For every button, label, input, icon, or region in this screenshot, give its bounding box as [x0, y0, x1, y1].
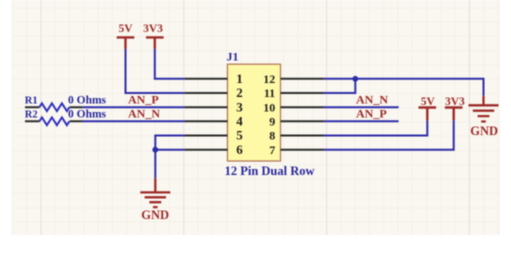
svg-text:7: 7: [269, 143, 275, 157]
wire pin8 to 5V right: [324, 120, 428, 135]
wire R1 to pin3: [82, 106, 184, 108]
svg-text:10: 10: [263, 100, 275, 114]
J1 pin 6: [184, 149, 227, 151]
J1 pin 5: [184, 135, 227, 137]
svg-text:AN_P: AN_P: [356, 107, 387, 121]
svg-text:5: 5: [236, 128, 243, 143]
J1 pin 7: [281, 149, 324, 151]
resistor R2 leads: [25, 120, 82, 122]
svg-text:AN_P: AN_P: [128, 93, 159, 107]
J1 pin 12: [281, 78, 324, 80]
svg-text:AN_N: AN_N: [128, 107, 160, 121]
svg-text:5V: 5V: [118, 23, 133, 35]
svg-text:3V3: 3V3: [143, 23, 163, 35]
wire pin7 to 3V3 right: [324, 120, 454, 150]
wire pin9 AN_P: [324, 120, 399, 122]
wire pin5 to GND drop: [155, 136, 184, 179]
wire 5V top to pin2: [126, 49, 185, 93]
svg-text:R1: R1: [25, 96, 38, 107]
resistor R1 body: [39, 103, 69, 111]
svg-text:0 Ohms: 0 Ohms: [68, 95, 107, 107]
J1 pin 3: [184, 106, 227, 108]
junction pin5/6: [152, 147, 158, 153]
wire 3V3 top to pin1: [155, 49, 185, 79]
svg-text:11: 11: [264, 86, 275, 100]
svg-text:12: 12: [263, 72, 275, 86]
J1 pin 2: [184, 92, 227, 94]
resistor R2 body: [39, 117, 69, 125]
svg-text:3: 3: [236, 99, 243, 114]
svg-text:9: 9: [269, 115, 275, 129]
junction pin11/12: [352, 76, 358, 82]
power symbol 3V3: [445, 108, 463, 121]
svg-text:2: 2: [236, 85, 243, 100]
J1 pin 1: [184, 78, 227, 80]
svg-text:GND: GND: [470, 124, 498, 138]
svg-text:5V: 5V: [421, 96, 436, 108]
svg-text:6: 6: [236, 142, 243, 157]
svg-text:1: 1: [236, 71, 243, 86]
power symbol 3V3: [146, 37, 164, 49]
wire R2 to pin4: [82, 120, 184, 122]
svg-text:R2: R2: [25, 110, 38, 121]
J1 pin 8: [281, 135, 324, 137]
wire pin11 up to pin12 net: [324, 79, 356, 93]
J1 pin 9: [281, 120, 324, 122]
svg-text:8: 8: [269, 129, 275, 143]
power symbol 5V: [117, 37, 135, 49]
grid major: [41, 0, 469, 235]
connector J1 body: [228, 64, 281, 161]
ground GND (right, pins 11/12): [482, 96, 484, 106]
J1 pin 11: [281, 92, 324, 94]
svg-text:GND: GND: [141, 208, 169, 222]
svg-text:12 Pin Dual Row: 12 Pin Dual Row: [225, 164, 315, 178]
svg-text:0 Ohms: 0 Ohms: [68, 109, 107, 121]
wire pin10 AN_N: [324, 106, 399, 108]
svg-text:J1: J1: [227, 49, 239, 63]
ground GND (left, pins 5/6): [154, 178, 156, 192]
svg-text:AN_N: AN_N: [356, 93, 388, 107]
power symbol 5V: [419, 108, 437, 121]
resistor R1 leads: [25, 106, 82, 108]
svg-text:4: 4: [236, 114, 243, 129]
wire pin6: [155, 149, 184, 151]
svg-text:3V3: 3V3: [445, 96, 465, 108]
J1 pin 10: [281, 106, 324, 108]
wire pin12 to GND right: [324, 79, 484, 96]
J1 pin 4: [184, 120, 227, 122]
